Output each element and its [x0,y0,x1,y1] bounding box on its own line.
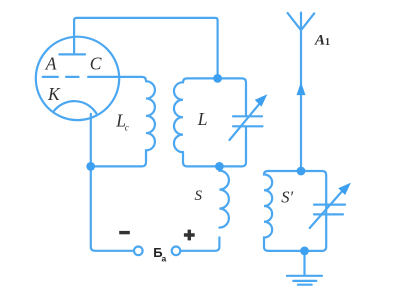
svg-text:c: c [125,123,129,133]
svg-text:A: A [314,33,325,49]
node ground junction [300,247,309,256]
coil L with tank loop and capacitor leads [174,78,246,166]
svg-text:A: A [45,54,57,74]
label plus [184,230,195,241]
wire plus terminal to coil S bottom [180,237,219,250]
anode plate bar [59,53,85,55]
antenna current arrowhead [297,82,306,95]
vacuum tube envelope [36,37,119,120]
label minus [119,231,130,234]
variable capacitor C2 arrow shaft [310,192,342,228]
variable capacitor C2 plates [314,205,345,215]
svg-text:L: L [197,109,208,129]
antenna symbol A1 [288,13,315,31]
variable capacitor C1 plates [233,116,263,126]
cathode arc [54,101,98,114]
wire cathode down to minus terminal [91,114,134,251]
node cathode-Lc junction [86,162,95,171]
svg-text:S′: S′ [281,188,293,207]
variable capacitor C1 arrow shaft [230,104,260,140]
node antenna top junction [297,167,306,176]
capacitor C2 arrowhead [338,183,351,195]
svg-text:а: а [162,253,167,263]
wire anode lead and top wire to node [74,18,218,79]
ground symbol [287,251,322,285]
antenna tank loop right side [268,171,326,251]
svg-text:C: C [90,54,102,74]
coil Lc [91,81,155,166]
node anode top junction [213,74,222,83]
battery plus terminal circle [172,247,181,256]
battery minus terminal circle [134,247,143,256]
coil S [219,166,229,227]
antenna lead wire [300,30,302,171]
svg-text:S: S [195,188,203,204]
capacitor C1 arrowhead [255,94,268,106]
wire grid to coil Lc [88,77,146,81]
svg-text:K: K [47,84,61,104]
grid dashed electrode [43,76,79,78]
coil S1 of antenna circuit [264,171,272,251]
node L-S bottom junction [215,162,224,171]
svg-text:1: 1 [325,37,330,48]
